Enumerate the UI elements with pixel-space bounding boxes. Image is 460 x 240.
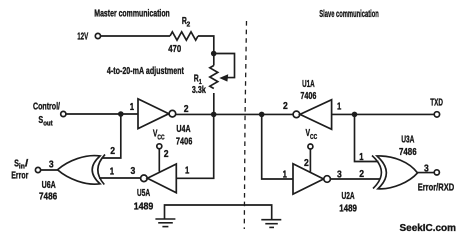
wire: R1 bottom to main line: [213, 93, 215, 114]
wire: R2 to node A: [198, 36, 214, 66]
svg-text:2: 2: [164, 148, 169, 160]
node C junction dot: [211, 112, 217, 118]
label R1: [194, 73, 202, 86]
label U2A 1489: [339, 190, 357, 214]
svg-text:/: /: [25, 157, 28, 169]
svg-text:2: 2: [359, 168, 364, 180]
Vcc terminal master: [157, 144, 162, 149]
svg-text:SeekIC.com: SeekIC.com: [400, 223, 457, 234]
svg-text:1: 1: [337, 100, 341, 112]
svg-text:2: 2: [283, 100, 288, 112]
terminal TXD: [434, 112, 439, 117]
svg-text:1489: 1489: [339, 202, 357, 214]
svg-text:Error/RXD: Error/RXD: [418, 182, 455, 194]
svg-text:470: 470: [168, 43, 181, 55]
wiper arrowhead of R1: [219, 74, 228, 81]
svg-text:3: 3: [424, 162, 429, 174]
resistor R2: [170, 32, 198, 40]
wire: U5A output to U6A input 1: [99, 177, 141, 179]
svg-text:Error: Error: [11, 169, 28, 181]
ground slave: [261, 220, 281, 228]
svg-text:U5A: U5A: [137, 187, 150, 199]
svg-text:2: 2: [184, 103, 189, 115]
label U5A 1489: [134, 187, 154, 212]
svg-text:3: 3: [49, 158, 54, 170]
terminal 12V: [95, 33, 100, 38]
svg-text:TXD: TXD: [430, 97, 443, 109]
wire: Vcc to U5A top: [158, 149, 160, 172]
svg-text:3.3k: 3.3k: [192, 84, 206, 96]
isolation barrier dashed line: [244, 21, 246, 229]
svg-text:7486: 7486: [39, 191, 57, 203]
svg-text:1: 1: [359, 151, 363, 163]
node A junction dot: [211, 51, 217, 57]
wire: main loop line: [176, 113, 294, 115]
svg-text:1: 1: [283, 168, 287, 180]
label U4A 7406: [176, 123, 193, 148]
inverter U4A: [138, 99, 169, 129]
svg-text:12V: 12V: [77, 30, 88, 42]
wire: wiper loop of R1: [214, 54, 235, 78]
terminal Sin/Error: [35, 167, 40, 172]
svg-text:2: 2: [304, 157, 309, 169]
wire: Control to U4A input: [66, 113, 138, 115]
bubble U4A: [169, 110, 176, 117]
wire: node D down to U2A input: [262, 114, 293, 179]
xor extra arc U6A: [98, 155, 105, 185]
svg-text:out: out: [43, 120, 53, 127]
wire: U5A input up to node C: [176, 114, 213, 178]
label U6A 7486: [39, 179, 57, 203]
svg-text:CC: CC: [157, 134, 164, 141]
node B junction dot: [118, 111, 124, 117]
wire: 12V to R2: [101, 35, 171, 37]
node D junction dot: [259, 112, 265, 118]
node E junction dot: [352, 112, 358, 118]
svg-text:1: 1: [110, 165, 114, 177]
bubble U2A: [324, 176, 331, 183]
wire: Vcc to U2A top: [309, 149, 311, 172]
svg-text:U1A: U1A: [302, 78, 315, 90]
label R2: [182, 15, 190, 28]
inverter U5A: [147, 164, 176, 193]
terminal Control/Sout: [61, 111, 66, 116]
svg-text:Control/: Control/: [33, 101, 60, 113]
svg-text:U3A: U3A: [401, 134, 414, 146]
svg-text:4-to-20-mA adjustment: 4-to-20-mA adjustment: [107, 65, 184, 77]
bubble U5A: [141, 175, 148, 182]
wire: node B down to U6A input 2: [102, 114, 121, 158]
Vcc label slave: [306, 127, 318, 141]
inverter U1A: [300, 100, 332, 130]
wire: ground bus: [165, 205, 272, 219]
label Sin/Error: [11, 157, 28, 181]
xor extra arc U3A: [372, 156, 381, 189]
svg-text:U4A: U4A: [176, 123, 190, 135]
label U3A 7486: [399, 134, 417, 158]
label Control/Sout: [33, 101, 60, 128]
svg-text:U2A: U2A: [342, 190, 355, 202]
xor gate U6A: [58, 156, 101, 185]
wire: node E down to U3A input 1: [355, 114, 379, 161]
Vcc terminal slave: [308, 144, 313, 149]
label U1A 7406: [300, 78, 316, 102]
ground master: [155, 219, 175, 227]
svg-text:7406: 7406: [176, 135, 193, 147]
terminal Error/RXD: [434, 170, 439, 175]
xor gate U3A: [377, 156, 418, 189]
wire: U3A output to terminal: [418, 172, 435, 174]
bubble U1A: [293, 111, 300, 118]
svg-text:2: 2: [187, 21, 191, 28]
svg-text:U6A: U6A: [42, 179, 56, 191]
svg-text:1489: 1489: [134, 200, 154, 212]
svg-text:3: 3: [131, 165, 136, 177]
svg-text:CC: CC: [310, 134, 317, 141]
svg-text:7486: 7486: [399, 146, 417, 158]
svg-text:1: 1: [185, 164, 189, 176]
svg-text:Master communication: Master communication: [94, 8, 170, 20]
svg-text:2: 2: [110, 145, 115, 157]
inverter U2A: [293, 164, 324, 194]
wire: U6A output to terminal: [41, 169, 58, 171]
potentiometer R1: [210, 66, 218, 89]
svg-text:1: 1: [130, 101, 134, 113]
svg-text:7406: 7406: [300, 90, 316, 102]
Vcc label master: [153, 127, 165, 141]
wire: U1A input to TXD: [332, 113, 435, 115]
wire: U2A output to U3A input 2: [330, 178, 380, 180]
svg-text:Slave communication: Slave communication: [319, 8, 379, 20]
